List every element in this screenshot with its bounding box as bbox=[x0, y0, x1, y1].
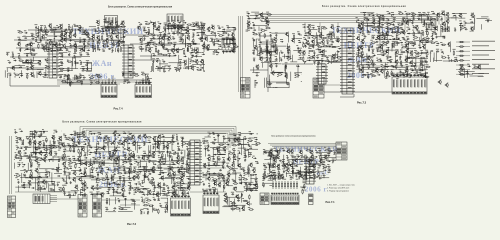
bus drop wire bbox=[304, 23, 306, 31]
wire rail A1 bbox=[28, 29, 96, 31]
value label bbox=[108, 25, 110, 28]
value label bbox=[67, 59, 69, 62]
wire W28 bbox=[76, 44, 78, 52]
value label bbox=[118, 43, 120, 46]
junction node bbox=[367, 19, 370, 22]
value label bbox=[295, 76, 297, 79]
value label bbox=[296, 44, 298, 47]
diode VD122 bbox=[386, 66, 389, 67]
diode VD90 bbox=[381, 15, 384, 16]
wire W306 bbox=[316, 48, 322, 50]
value label bbox=[193, 25, 196, 28]
junction node bbox=[170, 38, 173, 41]
resistor R50 bbox=[191, 50, 196, 51]
svg-text:2006 г.: 2006 г. bbox=[90, 72, 117, 81]
value label bbox=[265, 25, 268, 28]
wire W190 bbox=[142, 78, 144, 82]
wire rail B2 bbox=[356, 62, 428, 64]
bus wire net2 bbox=[260, 17, 442, 23]
wire W9 bbox=[44, 50, 46, 53]
wire W45 bbox=[119, 46, 121, 52]
resistor R187 bbox=[419, 70, 424, 71]
value label bbox=[371, 56, 374, 59]
wire W310 bbox=[325, 61, 338, 63]
resistor R128 bbox=[411, 14, 416, 15]
value label bbox=[258, 39, 260, 42]
transistor VT84 bbox=[330, 25, 334, 30]
wire W201 bbox=[144, 81, 152, 83]
transistor VT38 bbox=[139, 37, 143, 42]
value label bbox=[246, 11, 248, 14]
resistor R168 bbox=[414, 52, 419, 53]
value label bbox=[153, 21, 155, 24]
wire W91 bbox=[189, 28, 204, 30]
value label bbox=[258, 54, 260, 57]
value label bbox=[116, 30, 118, 33]
value label bbox=[362, 34, 364, 37]
junction node bbox=[55, 42, 58, 45]
value label bbox=[378, 20, 380, 23]
value label bbox=[152, 52, 154, 55]
value label bbox=[285, 61, 288, 64]
value label bbox=[173, 41, 176, 44]
junction node bbox=[408, 56, 411, 59]
value label bbox=[41, 43, 44, 46]
junction node bbox=[77, 28, 80, 31]
junction node bbox=[69, 44, 72, 47]
value label bbox=[321, 57, 323, 60]
junction node bbox=[358, 56, 361, 59]
svg-text:Рис.7.1: Рис.7.1 bbox=[325, 200, 335, 204]
resistor R104 bbox=[295, 75, 300, 76]
capacitor C168 bbox=[424, 61, 427, 63]
value label bbox=[86, 59, 89, 62]
value label bbox=[391, 68, 394, 71]
value label bbox=[427, 39, 429, 42]
value label bbox=[70, 26, 72, 29]
value label bbox=[195, 52, 197, 55]
value label bbox=[326, 34, 329, 37]
value label bbox=[143, 29, 146, 32]
value label bbox=[297, 30, 299, 33]
value label bbox=[112, 42, 115, 45]
resistor R107 bbox=[322, 28, 327, 29]
wire W303 bbox=[316, 60, 329, 62]
capacitor C36 bbox=[153, 34, 156, 36]
value label bbox=[73, 57, 75, 60]
junction node bbox=[266, 81, 269, 84]
value label bbox=[37, 27, 39, 30]
resistor R70 bbox=[45, 67, 50, 68]
wire W115 bbox=[214, 32, 216, 38]
transistor VT83 bbox=[307, 24, 311, 29]
transistor VT16 bbox=[62, 43, 66, 48]
value label bbox=[206, 47, 209, 50]
value label bbox=[117, 49, 119, 52]
wire W110 bbox=[217, 31, 231, 33]
value label bbox=[292, 37, 295, 40]
value label bbox=[441, 10, 444, 13]
wire W276 bbox=[275, 86, 289, 88]
value label bbox=[410, 62, 413, 65]
value label bbox=[63, 73, 66, 76]
wire W251 bbox=[271, 38, 275, 40]
value label bbox=[376, 44, 379, 47]
value label bbox=[49, 23, 51, 26]
wire W139 bbox=[179, 70, 181, 73]
diode VD67 bbox=[272, 46, 275, 47]
value label bbox=[196, 47, 198, 50]
capacitor C20 bbox=[31, 38, 34, 40]
wire W105 bbox=[213, 38, 231, 40]
capacitor C138 bbox=[358, 23, 360, 26]
junction node bbox=[377, 35, 380, 38]
value label bbox=[373, 19, 375, 22]
value label bbox=[143, 30, 145, 33]
diode VD52 bbox=[191, 55, 194, 56]
value label bbox=[66, 74, 69, 77]
diode VD84 bbox=[319, 52, 322, 53]
value label bbox=[31, 35, 34, 38]
junction node bbox=[190, 65, 193, 68]
junction node bbox=[439, 18, 442, 21]
value label bbox=[328, 44, 331, 47]
value label bbox=[163, 65, 166, 68]
value label bbox=[259, 43, 261, 46]
resistor R88 bbox=[147, 75, 148, 80]
value label bbox=[316, 44, 318, 47]
value label bbox=[271, 38, 274, 41]
svg-text:Блок развертки. Схема электрич: Блок развертки. Схема электрическая прин… bbox=[322, 6, 407, 8]
value label bbox=[83, 42, 85, 45]
value label bbox=[222, 30, 224, 33]
value label bbox=[420, 59, 423, 62]
wire W279 bbox=[286, 73, 288, 84]
junction node bbox=[109, 25, 112, 28]
value label bbox=[304, 42, 307, 45]
wire W128 bbox=[192, 55, 202, 57]
value label bbox=[410, 68, 413, 71]
capacitor C163 bbox=[400, 56, 402, 59]
resistor R186 bbox=[391, 71, 392, 76]
bus drop wire bbox=[359, 23, 361, 31]
value label bbox=[112, 28, 115, 31]
value label bbox=[140, 41, 143, 44]
capacitor C167 bbox=[390, 60, 392, 63]
junction node bbox=[116, 20, 119, 23]
value label bbox=[86, 51, 89, 54]
capacitor C60 bbox=[169, 54, 171, 57]
value label bbox=[259, 56, 262, 59]
value label bbox=[311, 24, 314, 27]
junction node bbox=[86, 42, 89, 45]
value label bbox=[311, 34, 314, 37]
value label bbox=[164, 22, 167, 25]
value label bbox=[83, 78, 85, 81]
resistor R169 bbox=[357, 55, 362, 56]
capacitor C59 bbox=[153, 54, 156, 56]
value label bbox=[317, 60, 320, 63]
junction node bbox=[122, 73, 125, 76]
junction node bbox=[91, 47, 94, 50]
junction node bbox=[23, 49, 26, 52]
wire W207 bbox=[124, 79, 129, 81]
resistor R100 bbox=[270, 57, 271, 62]
wire W121 bbox=[207, 49, 221, 51]
value label bbox=[111, 51, 112, 54]
value label bbox=[88, 74, 90, 77]
value label bbox=[60, 33, 63, 36]
diode VD66 bbox=[298, 42, 301, 43]
wire W247 bbox=[255, 39, 257, 45]
value label bbox=[361, 66, 364, 69]
capacitor C21 bbox=[19, 49, 21, 52]
resistor R167 bbox=[400, 51, 405, 52]
watermark stamp bbox=[72, 27, 143, 81]
value label bbox=[393, 24, 395, 27]
value label bbox=[385, 63, 388, 66]
transistor VT90 bbox=[302, 50, 306, 55]
value label bbox=[377, 34, 379, 37]
value label bbox=[59, 23, 61, 26]
value label bbox=[386, 48, 389, 51]
resistor R91 bbox=[248, 27, 253, 28]
value label bbox=[159, 31, 162, 34]
value label bbox=[271, 44, 274, 47]
value label bbox=[425, 49, 428, 52]
value label bbox=[179, 64, 182, 67]
transistor VT13 bbox=[59, 38, 63, 43]
wire W170 bbox=[60, 56, 72, 58]
junction node bbox=[361, 54, 364, 57]
diode VD124 bbox=[359, 69, 362, 70]
value label bbox=[233, 43, 236, 46]
value label bbox=[330, 38, 333, 41]
value label bbox=[308, 54, 310, 57]
capacitor C48 bbox=[145, 48, 147, 51]
capacitor C157 bbox=[414, 41, 416, 44]
value label bbox=[18, 52, 21, 55]
junction node bbox=[392, 38, 395, 41]
junction node bbox=[13, 72, 16, 75]
value label bbox=[122, 34, 124, 37]
diode VD16 bbox=[32, 50, 35, 51]
wire W240 bbox=[271, 32, 288, 34]
wire W226 bbox=[267, 51, 275, 53]
resistor R32 bbox=[173, 22, 174, 27]
resistor R93 bbox=[265, 27, 270, 28]
transistor VT5 bbox=[83, 30, 87, 35]
value label bbox=[372, 34, 375, 37]
junction node bbox=[162, 46, 165, 49]
value label bbox=[190, 53, 192, 56]
resistor R63 bbox=[184, 67, 189, 68]
svg-text:3. *Подбор при регулировке: 3. *Подбор при регулировке bbox=[327, 191, 349, 193]
value label bbox=[309, 33, 312, 36]
value label bbox=[376, 72, 379, 75]
wire W66 bbox=[186, 47, 188, 52]
resistor R111 bbox=[322, 37, 327, 38]
value label bbox=[318, 49, 321, 52]
diode VD3 bbox=[36, 35, 39, 36]
wire W85 bbox=[187, 46, 189, 52]
capacitor C151 bbox=[407, 38, 410, 40]
value label bbox=[427, 11, 429, 14]
value label bbox=[74, 43, 77, 46]
value label bbox=[255, 13, 257, 16]
value label bbox=[405, 55, 408, 58]
wire W282 bbox=[274, 71, 283, 73]
value label bbox=[421, 66, 423, 69]
value label bbox=[275, 32, 278, 35]
value label bbox=[107, 45, 109, 48]
value label bbox=[330, 34, 333, 37]
wire rail B4 bbox=[356, 69, 428, 71]
capacitor C69 bbox=[26, 54, 28, 57]
value label bbox=[81, 65, 84, 68]
value label bbox=[152, 57, 155, 60]
wire W35 bbox=[63, 39, 71, 41]
value label bbox=[143, 34, 146, 37]
junction node bbox=[175, 31, 178, 34]
wire W227 bbox=[265, 42, 267, 54]
value label bbox=[184, 53, 186, 56]
junction node bbox=[120, 44, 123, 47]
value label bbox=[65, 47, 68, 50]
connector X1 bbox=[105, 16, 118, 35]
value label bbox=[192, 32, 194, 35]
wire W284 bbox=[337, 26, 340, 28]
junction node bbox=[101, 42, 104, 45]
value label bbox=[222, 30, 225, 33]
resistor R118 bbox=[308, 50, 313, 51]
wire W23 bbox=[89, 26, 96, 28]
wire W18 bbox=[75, 29, 77, 38]
value label bbox=[38, 70, 41, 73]
value label bbox=[163, 26, 165, 29]
value label bbox=[406, 30, 408, 33]
value label bbox=[167, 20, 169, 23]
value label bbox=[337, 25, 339, 28]
junction node bbox=[219, 27, 222, 30]
value label bbox=[86, 32, 88, 35]
wire W27 bbox=[74, 40, 84, 42]
wire W21 bbox=[45, 44, 47, 51]
wire W356 bbox=[421, 15, 423, 24]
value label bbox=[398, 10, 401, 13]
capacitor C43 bbox=[144, 37, 146, 40]
value label bbox=[137, 25, 140, 28]
resistor R165 bbox=[377, 50, 382, 51]
capacitor C5 bbox=[35, 38, 37, 41]
value label bbox=[368, 12, 371, 15]
junction node bbox=[191, 55, 194, 58]
transistor VT9 bbox=[68, 33, 72, 38]
wire W235 bbox=[298, 47, 302, 49]
transistor VT81 bbox=[255, 64, 259, 69]
value label bbox=[45, 58, 48, 61]
value label bbox=[143, 39, 145, 42]
resistor R120 bbox=[309, 57, 314, 58]
transistor VT15 bbox=[54, 43, 58, 48]
transistor VT109 bbox=[376, 35, 380, 40]
value label bbox=[378, 16, 381, 19]
resistor R26 bbox=[106, 36, 111, 37]
value label bbox=[233, 30, 235, 33]
value label bbox=[158, 24, 160, 27]
value label bbox=[358, 30, 361, 33]
value label bbox=[271, 42, 273, 45]
wire W173 bbox=[86, 70, 92, 72]
value label bbox=[38, 59, 40, 62]
capacitor C137 bbox=[441, 18, 443, 21]
value label bbox=[248, 20, 250, 23]
value label bbox=[364, 16, 367, 19]
wire W153 bbox=[21, 70, 23, 77]
transistor VT21 bbox=[96, 20, 100, 25]
wire W245 bbox=[295, 38, 302, 40]
value label bbox=[157, 51, 159, 54]
value label bbox=[308, 23, 311, 26]
diode VD22 bbox=[117, 45, 120, 46]
wire W327 bbox=[434, 21, 436, 33]
junction node bbox=[367, 30, 370, 33]
junction node bbox=[362, 73, 365, 76]
resistor R60 bbox=[157, 67, 162, 68]
IC D1 bbox=[47, 42, 59, 78]
value label bbox=[218, 47, 219, 50]
value label bbox=[361, 26, 363, 29]
value label bbox=[83, 43, 85, 46]
value label bbox=[127, 79, 129, 82]
wire W78 bbox=[201, 24, 203, 36]
resistor R4 bbox=[74, 25, 79, 26]
transistor VT86 bbox=[330, 31, 334, 36]
transistor VT118 bbox=[395, 49, 399, 54]
value label bbox=[424, 59, 427, 62]
capacitor C22 bbox=[97, 27, 99, 30]
wire W135 bbox=[177, 63, 179, 71]
value label bbox=[111, 19, 113, 22]
value label bbox=[44, 76, 46, 79]
junction node bbox=[436, 12, 439, 15]
junction node bbox=[144, 23, 147, 26]
wire W19 bbox=[94, 45, 96, 52]
capacitor C71 bbox=[27, 68, 29, 71]
value label bbox=[203, 34, 206, 37]
value label bbox=[191, 64, 193, 67]
value label bbox=[161, 42, 164, 45]
transistor VT1 bbox=[48, 23, 52, 28]
diode VD34 bbox=[192, 30, 195, 31]
value label bbox=[419, 71, 422, 74]
transistor VT97 bbox=[360, 21, 364, 26]
value label bbox=[367, 75, 370, 78]
wire W97 bbox=[203, 48, 205, 52]
junction node bbox=[204, 37, 207, 40]
wire W258 bbox=[252, 72, 259, 74]
value label bbox=[35, 40, 37, 43]
junction node bbox=[71, 29, 74, 32]
value label bbox=[232, 47, 234, 50]
wire W320 bbox=[423, 38, 425, 40]
value label bbox=[417, 15, 420, 18]
junction node bbox=[66, 59, 69, 62]
diode VD99 bbox=[391, 24, 394, 25]
wire W204 bbox=[140, 81, 151, 83]
wire W81 bbox=[174, 44, 176, 52]
resistor R81 bbox=[61, 81, 66, 82]
